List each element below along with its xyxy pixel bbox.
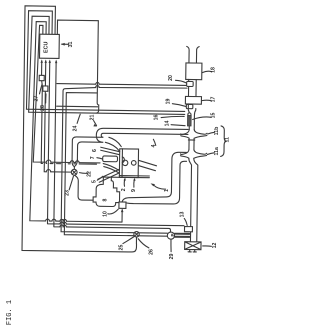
svg-text:22: 22: [87, 171, 93, 177]
svg-text:11b: 11b: [214, 127, 220, 136]
svg-text:31: 31: [68, 42, 74, 48]
svg-text:16: 16: [154, 115, 160, 121]
svg-text:17: 17: [211, 97, 217, 103]
svg-text:13: 13: [180, 212, 186, 218]
svg-text:1: 1: [164, 189, 170, 192]
svg-text:14: 14: [165, 121, 171, 127]
svg-text:27: 27: [34, 96, 40, 102]
svg-text:5: 5: [92, 180, 98, 183]
svg-text:6: 6: [92, 149, 98, 152]
svg-text:29: 29: [169, 254, 175, 260]
svg-text:8: 8: [103, 198, 109, 201]
svg-text:P: P: [170, 233, 175, 236]
svg-text:19: 19: [166, 99, 172, 105]
svg-text:11a: 11a: [214, 147, 220, 155]
svg-text:15: 15: [211, 113, 217, 119]
svg-text:23: 23: [65, 190, 71, 196]
svg-text:10: 10: [103, 211, 109, 217]
svg-text:24: 24: [73, 126, 79, 132]
svg-text:7: 7: [90, 156, 96, 159]
svg-text:4: 4: [151, 144, 157, 147]
svg-text:25: 25: [119, 245, 125, 251]
svg-text:12: 12: [212, 243, 218, 249]
svg-text:28: 28: [40, 105, 46, 111]
svg-text:11: 11: [225, 137, 231, 143]
svg-text:20: 20: [168, 75, 174, 81]
svg-text:21: 21: [90, 115, 96, 121]
svg-text:18: 18: [211, 67, 217, 73]
svg-text:9: 9: [131, 189, 137, 192]
svg-text:26: 26: [149, 249, 155, 255]
svg-text:ECU: ECU: [43, 42, 49, 53]
svg-text:2: 2: [121, 188, 127, 191]
svg-text:FIG. 1: FIG. 1: [6, 300, 14, 325]
